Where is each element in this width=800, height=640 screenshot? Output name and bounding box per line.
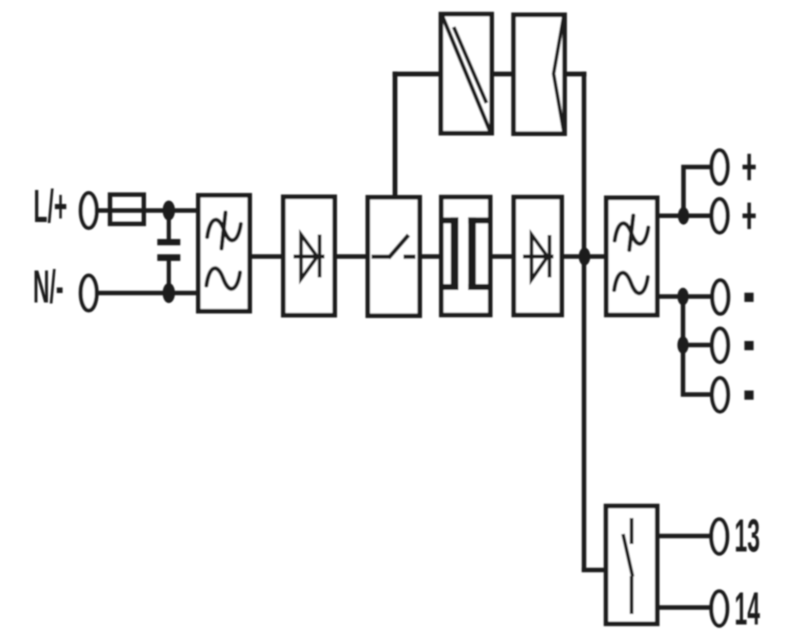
output filter sine (clean) — [614, 273, 648, 294]
terminal L/+ — [81, 193, 97, 228]
label + (terminal 2) — [743, 203, 756, 229]
relay contact symbol — [623, 518, 633, 614]
output filter sine (crossed) — [615, 216, 649, 251]
terminal +2 — [712, 199, 728, 233]
switch contact symbol — [372, 235, 416, 258]
optocoupler diagonal lines — [442, 14, 492, 134]
wire main bus: transformer to output rectifier — [490, 254, 513, 259]
junction dot on L wire — [163, 201, 175, 221]
wire feedback between isolation and regulator blocks — [492, 72, 513, 77]
wire main bus: output rectifier to output filter — [564, 254, 606, 259]
label - (terminal 1) — [744, 293, 753, 302]
block: transformer — [441, 197, 490, 315]
junction dot on N wire — [163, 283, 175, 303]
wire right vertical drop from output node to relay — [582, 257, 587, 573]
wire feedback from regulator to right drop — [565, 72, 586, 77]
wire right vertical drop to output node — [582, 72, 587, 257]
wire branch down to -2 terminal — [683, 297, 711, 346]
terminal +1 — [712, 150, 728, 184]
wire main bus: input filter to rectifier — [250, 254, 283, 259]
block: regulator / comparator — [514, 15, 565, 134]
terminal 13 — [711, 519, 727, 553]
label - (terminal 2) — [744, 341, 753, 350]
wire feedback riser from switching stage — [393, 72, 398, 198]
capacitor C (input) plates — [157, 239, 180, 261]
block: input rectifier — [283, 197, 334, 315]
junction dot main bus / feedback drop — [579, 248, 591, 266]
wire branch down to -3 terminal — [683, 345, 711, 395]
junction dot minus branch 2 — [677, 336, 688, 354]
terminal N/- — [81, 276, 97, 311]
output rectifier diode symbol — [523, 235, 554, 280]
wire output filter to -1 terminal — [657, 294, 711, 299]
junction dot minus branch 1 — [677, 288, 688, 306]
regulator chevron symbol — [554, 15, 564, 134]
wire L/+ from terminal to input filter — [96, 208, 198, 213]
wire into relay block — [582, 568, 606, 573]
block: input EMI filter — [198, 195, 249, 311]
wire main bus: switching stage to transformer — [420, 254, 441, 259]
terminal -3 — [712, 378, 728, 412]
svg-text:L/+: L/+ — [34, 180, 68, 232]
wire capacitor branch top — [167, 211, 171, 242]
svg-text:N/-: N/- — [33, 261, 63, 313]
block: relay signal contact — [606, 506, 657, 624]
fuse F (input) — [110, 195, 144, 224]
wire relay to terminal 14 — [657, 605, 711, 610]
svg-text:13: 13 — [735, 509, 760, 561]
block: isolation feedback (optocoupler) — [441, 14, 492, 133]
input filter sine (crossed) — [207, 213, 241, 249]
terminal 14 — [711, 591, 727, 625]
svg-text:14: 14 — [735, 583, 761, 635]
wire main bus: rectifier to switching stage — [335, 254, 367, 259]
input filter sine (clean) — [206, 268, 240, 289]
wire output filter to +2 terminal — [657, 214, 711, 219]
wire branch up to +1 terminal — [684, 167, 712, 216]
wire feedback top run to isolation block — [393, 72, 441, 77]
wire N/- from terminal to input filter — [96, 291, 198, 296]
block: switching stage — [368, 197, 420, 315]
label + (terminal 1) — [743, 154, 756, 180]
terminal -2 — [712, 329, 728, 363]
block: output filter — [606, 198, 657, 315]
transformer winding bars — [442, 217, 488, 290]
label - (terminal 3) — [744, 391, 753, 400]
wire capacitor branch bottom — [167, 259, 171, 293]
block: output rectifier — [514, 197, 562, 315]
junction dot plus branch — [678, 207, 689, 225]
input rectifier diode symbol — [294, 235, 325, 280]
terminal -1 — [712, 280, 728, 314]
wire relay to terminal 13 — [657, 534, 711, 539]
